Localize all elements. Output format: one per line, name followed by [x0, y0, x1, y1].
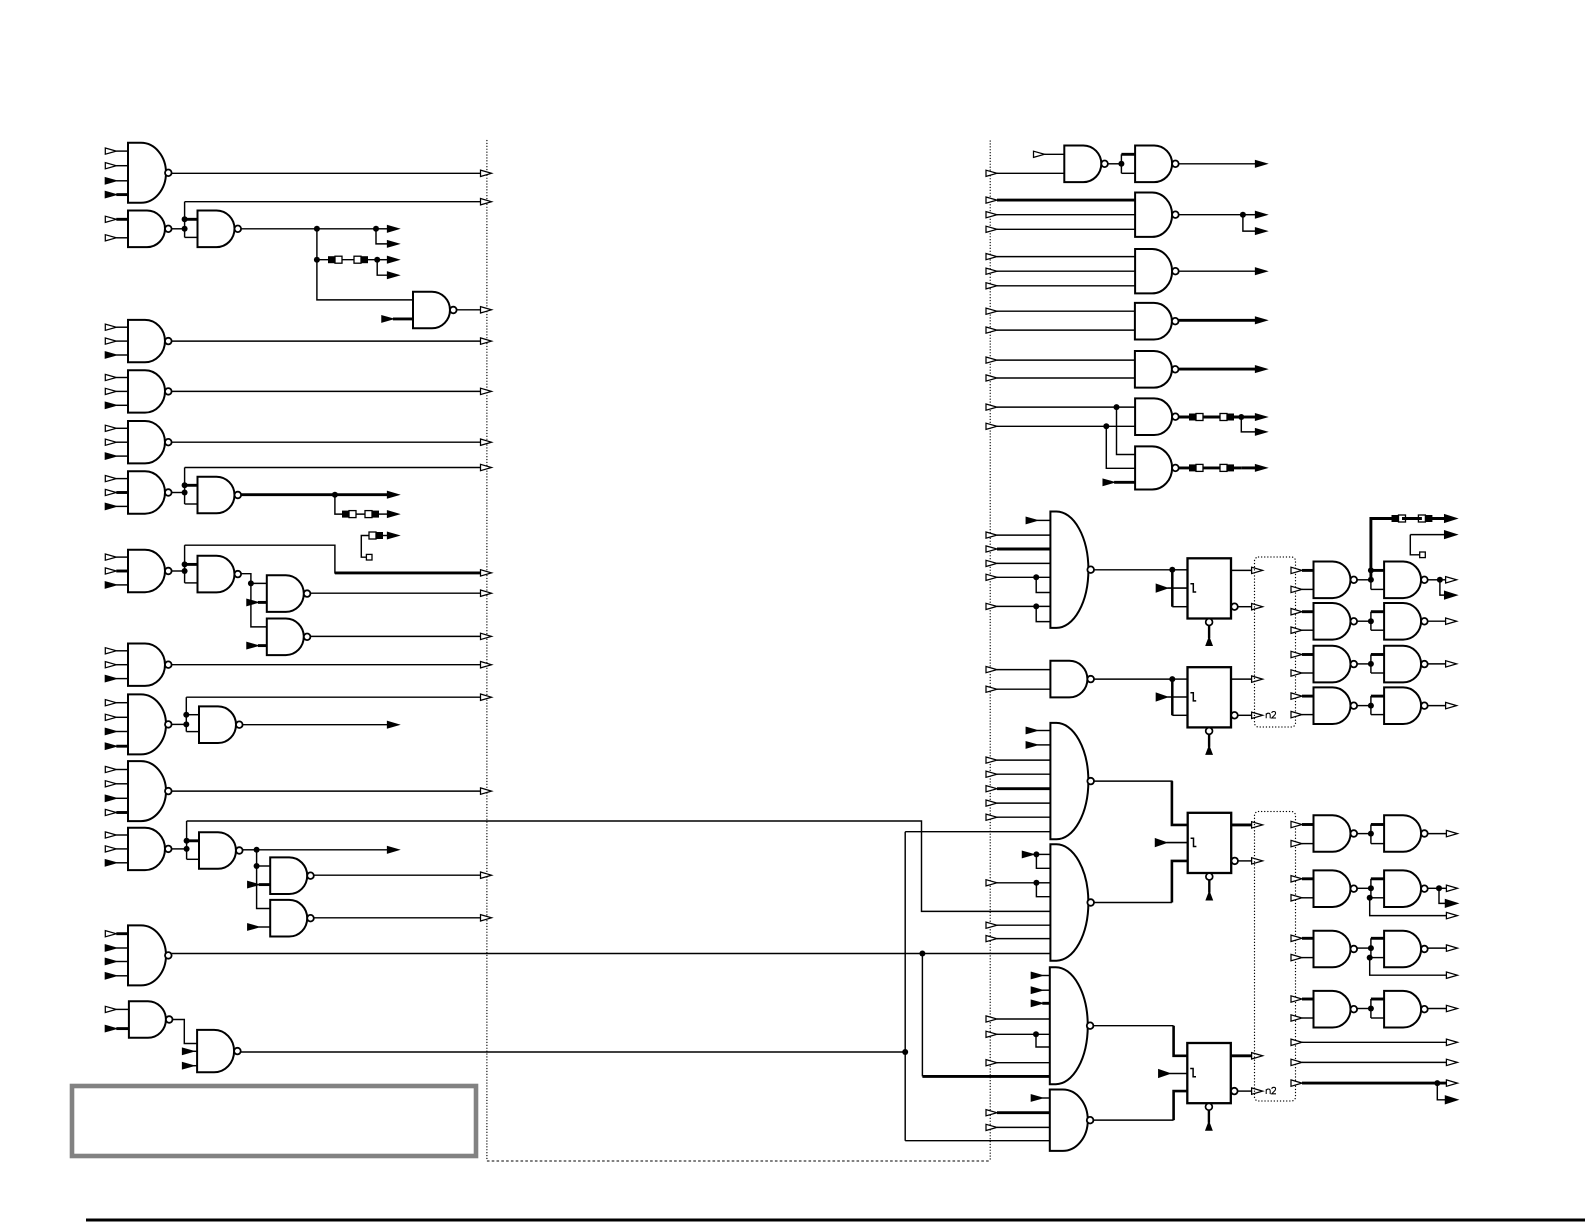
wire G2 out to node — [171, 228, 184, 230]
flip-flop FF1 — [1188, 558, 1232, 645]
wire G25A out — [1108, 163, 1121, 165]
NAND gate G44B — [1384, 931, 1428, 968]
wire r6b down to G31.B — [1106, 426, 1135, 468]
wire g32a stub — [1036, 577, 1050, 592]
junction G35a — [1368, 618, 1374, 624]
input port arrow G38.B — [1026, 742, 1050, 748]
input port arrow G1.C — [105, 178, 128, 184]
junction node n2a lower — [182, 226, 188, 232]
input port arrow G1.A — [105, 148, 128, 154]
wire G36 loop stub b — [1371, 672, 1384, 674]
output port arrow rnet2b — [1256, 228, 1267, 234]
junction G45a — [1368, 1006, 1374, 1012]
wire G44 loop stub b — [1371, 957, 1384, 959]
NAND gate G15 — [128, 694, 172, 754]
input port arrow G38.F — [986, 800, 1050, 806]
input port arrow G27.C — [986, 283, 1135, 289]
input port arrow G35.B — [1291, 627, 1302, 633]
bubble FF1.QB — [1231, 603, 1238, 610]
input port arrow G10.B — [105, 568, 128, 574]
input port arrow G40.G — [986, 1060, 1050, 1066]
wire G16 out — [243, 724, 388, 726]
wire FF2 QB — [1238, 714, 1252, 716]
wire G45 loop stub b — [1371, 1017, 1384, 1019]
NAND gate G31 — [1135, 446, 1179, 489]
NAND gate G17 — [128, 761, 172, 821]
wire G25B out — [1179, 163, 1256, 165]
wire FF4 Q — [1231, 1054, 1252, 1057]
junction n22a — [919, 951, 925, 957]
wire G42 loop — [1370, 825, 1372, 844]
wire g39b to pin3 — [1036, 882, 1050, 884]
wire G43 link — [1358, 887, 1371, 889]
wire G44B out — [1428, 947, 1446, 949]
NAND gate G9 — [198, 477, 242, 514]
wire n3 tap1 lead — [376, 228, 388, 230]
input port arrow G22.B — [105, 945, 128, 951]
wire r2 branch — [1243, 215, 1256, 231]
junction g32b — [1033, 603, 1039, 609]
wire n11 to G12.A — [251, 582, 267, 584]
wire G36 loop — [1370, 655, 1372, 674]
wire G36 link — [1358, 663, 1371, 665]
wire n15 to G16.B — [186, 731, 199, 733]
input port arrow G4.B — [382, 316, 413, 322]
junction g39b — [1033, 880, 1039, 886]
junction r2 — [1240, 212, 1246, 218]
wire G43 loop — [1370, 879, 1372, 898]
net stub pads r6 right — [1220, 414, 1234, 421]
input port arrow G22.A — [105, 931, 128, 937]
wire G34 branch — [1440, 580, 1445, 595]
wire stub net s1 — [361, 536, 369, 558]
output port arrow FF4.QB — [1252, 1088, 1263, 1094]
wire G37B out — [1428, 705, 1446, 707]
junction n3b — [373, 226, 379, 232]
input port arrow G22.D — [105, 973, 128, 979]
wire G36.B lead — [1302, 672, 1314, 674]
output port arrow bnet2a — [1446, 885, 1457, 891]
input port arrow G39.G — [986, 936, 1050, 942]
NAND gate G3 — [198, 211, 242, 248]
input port arrow G37.A — [1291, 693, 1302, 699]
wire rowA stub2 drop — [1410, 535, 1419, 555]
wire n15 feedback to boundary — [186, 696, 480, 698]
wire b2 pin drop — [1370, 898, 1447, 916]
net stub pads s1 — [369, 532, 383, 539]
wire ff1 D stub — [1172, 569, 1187, 571]
output port arrow FF4.Q — [1252, 1053, 1263, 1059]
input port arrow G38.A — [1026, 727, 1050, 733]
input port arrow G10.C — [105, 582, 128, 588]
input port arrow G6.B — [105, 388, 128, 394]
input port arrow G25A.B — [986, 170, 1064, 176]
wire G43.A lead — [1302, 877, 1314, 880]
wire G41 out thick — [1174, 1091, 1188, 1120]
input port arrow G45.B — [1291, 1015, 1302, 1021]
wire ff2 D stub — [1172, 678, 1187, 680]
output port arrow n3 tap1 — [388, 226, 399, 232]
NAND gate G42A — [1314, 815, 1358, 852]
wire G45.A lead — [1302, 998, 1314, 1001]
NAND gate G45B — [1384, 991, 1428, 1028]
NAND gate G35B — [1384, 603, 1428, 640]
wire G9 out — [241, 493, 335, 496]
input port arrow G39.A — [1022, 851, 1036, 857]
NAND gate G14 — [128, 644, 172, 686]
input port arrow G5.C — [105, 352, 128, 358]
input port arrow G24.B — [183, 1048, 198, 1054]
input port arrow w3 — [1291, 1080, 1302, 1086]
wire r1 stub a — [1121, 153, 1135, 156]
junction b2 — [1436, 885, 1442, 891]
NAND gate G34B — [1384, 562, 1428, 599]
junction b3b — [1367, 955, 1373, 961]
input port arrow G38.G — [986, 814, 1050, 820]
wire G37 link — [1358, 705, 1371, 707]
input port arrow G25A.A — [1034, 151, 1065, 157]
wire r1 stub b — [1121, 172, 1135, 174]
junction w3 — [1434, 1080, 1440, 1086]
input port arrow G15.C — [105, 728, 128, 734]
junction G36a — [1368, 661, 1374, 667]
input port arrow G12.B — [247, 599, 267, 605]
junction n19b — [254, 863, 260, 869]
wire G43 loop stub a — [1371, 877, 1384, 880]
junction ff1 D — [1169, 567, 1175, 573]
wire n15 to G16.A — [186, 714, 199, 716]
junction G34a — [1368, 577, 1374, 583]
wire n3 pad row — [317, 259, 377, 261]
input port arrow G6.A — [105, 374, 128, 380]
wire r2 tap lead — [1243, 214, 1256, 216]
junction G34c — [1437, 577, 1443, 583]
input port arrow G15.B — [105, 714, 128, 720]
output port arrow FF2.QB — [1252, 712, 1263, 718]
NAND gate G1 — [128, 143, 172, 203]
input port arrow G36.B — [1291, 670, 1302, 676]
NAND gate G36A — [1314, 646, 1358, 683]
junction n10b — [182, 568, 188, 574]
wire G43.B lead — [1302, 897, 1314, 899]
dashed boundary bottom — [487, 1160, 990, 1162]
output port arrow net2 — [481, 199, 492, 205]
output port arrow rnet4 — [1256, 317, 1267, 323]
NAND gate G44A — [1314, 931, 1358, 968]
input port arrow G31.C — [1103, 479, 1135, 485]
input port arrow G5.B — [105, 338, 128, 344]
wire G34 top riser — [1371, 519, 1392, 580]
input port arrow G41.C — [986, 1124, 1050, 1130]
wire w3 branch — [1437, 1083, 1445, 1100]
net stub square s1 — [366, 554, 372, 560]
input port arrow G27.B — [986, 268, 1135, 274]
junction n19a — [254, 847, 260, 853]
wire g39a to pin1 — [1036, 853, 1050, 855]
wire G37.A lead — [1302, 695, 1314, 698]
wire G34 link — [1358, 579, 1371, 581]
wire G26 out — [1179, 214, 1243, 216]
NAND gate G43A — [1314, 870, 1358, 907]
input port arrow G43.B — [1291, 895, 1302, 901]
input port arrow G32.D — [986, 560, 1050, 566]
input port arrow G32.G — [986, 603, 1050, 609]
flip-flop FF4 — [1187, 1043, 1231, 1130]
wire n19 tap lead — [257, 849, 388, 851]
input port arrow G43.A — [1291, 876, 1302, 882]
NAND gate G27 — [1135, 249, 1179, 293]
input port arrow G14.B — [105, 662, 128, 668]
wire ff1 aux tie — [1171, 570, 1174, 607]
wire n3 branch down1 — [376, 229, 388, 244]
net stub pads n3 left — [328, 256, 342, 263]
wire G34 out lead — [1440, 579, 1446, 581]
input port arrow G7.C — [105, 453, 128, 459]
wire g39b stub — [1036, 883, 1050, 897]
wire w1 — [1302, 1041, 1446, 1043]
wire n3 tap3 lead — [377, 259, 387, 261]
wire G40 out thick — [1174, 1026, 1188, 1056]
input port arrow G13.B — [247, 643, 267, 649]
input port arrow G40.C — [1031, 1000, 1050, 1006]
wire G38 out — [1094, 781, 1172, 825]
input port arrow G21.B — [248, 924, 271, 930]
input port arrow G33.B — [986, 686, 1050, 692]
wire n8 to G9.B — [185, 503, 198, 505]
wire n19 to G20.A — [257, 865, 271, 867]
wire G42B out — [1428, 833, 1446, 835]
output port arrow bnet2b — [1445, 900, 1457, 908]
wire n3 vertical — [316, 229, 318, 260]
output port arrow n9 tap2 — [388, 511, 399, 517]
wire G8 out — [171, 492, 184, 494]
input port arrow G32.C — [986, 546, 1050, 552]
NAND gate G22 — [128, 925, 172, 985]
wire G34 loop stub b — [1371, 588, 1384, 590]
wire G21 out — [314, 917, 481, 919]
wire G42.B lead — [1302, 843, 1314, 845]
output port arrow pnetG36 — [1446, 661, 1457, 667]
wire G44.A lead — [1302, 937, 1314, 940]
NAND gate G5 — [128, 320, 172, 362]
wire G44 loop stub a — [1371, 937, 1384, 940]
input port arrow G6.C — [105, 402, 128, 408]
input port arrow G27.A — [986, 254, 1135, 260]
NAND gate G28 — [1135, 303, 1179, 340]
input port arrow G36.A — [1291, 651, 1302, 657]
NAND gate G20 — [270, 857, 314, 894]
flip-flop FF2 — [1188, 667, 1232, 754]
wire G37 loop stub a — [1371, 695, 1384, 698]
output port arrow bnet4 — [1446, 1005, 1457, 1011]
NAND gate G12 — [267, 575, 311, 612]
junction g39a — [1033, 851, 1039, 857]
clock input arrow FF3.CK — [1155, 839, 1187, 847]
wire G37.B lead — [1302, 714, 1314, 716]
net stub pads rowA right — [1418, 515, 1432, 522]
NAND gate G37B — [1384, 687, 1428, 724]
input port arrow G8.A — [105, 476, 128, 482]
input port arrow G1.B — [105, 163, 128, 169]
input port arrow G23.B — [105, 1026, 129, 1032]
junction G42a — [1368, 831, 1374, 837]
wire G27 out — [1179, 270, 1256, 272]
output port arrow net4 — [481, 307, 492, 313]
output port arrow w2 — [1446, 1059, 1457, 1065]
wire G43B out — [1428, 887, 1439, 889]
wire G44 link — [1358, 947, 1371, 949]
wire G30 out — [1179, 416, 1242, 419]
input port arrow G17.D — [105, 809, 128, 815]
wire G32 out — [1094, 569, 1172, 571]
input port arrow G1.D — [105, 192, 128, 198]
dotted net box middle — [1255, 557, 1296, 727]
wire ff2 aux stub — [1172, 714, 1187, 716]
wire w2 — [1302, 1061, 1446, 1063]
input port arrow G35.A — [1291, 609, 1302, 615]
input port arrow G37.B — [1291, 711, 1302, 717]
wire r6a down to G31.A — [1117, 407, 1136, 454]
wire G36.A lead — [1302, 653, 1314, 656]
input port arrow G28.B — [986, 327, 1135, 333]
input port arrow G42.B — [1291, 840, 1302, 846]
output port arrow net7 — [481, 439, 492, 445]
wire G11 out — [241, 574, 267, 627]
wire n3 to G4 — [317, 260, 413, 300]
wire G35 loop — [1370, 612, 1372, 631]
wire G34.A lead — [1302, 569, 1314, 572]
wire n18 to G19.A — [187, 839, 199, 842]
NAND gate G42B — [1384, 815, 1428, 852]
dotted feed-through boundary left — [486, 141, 488, 1162]
NAND gate G4 — [413, 292, 457, 329]
wire G34 loop stub a — [1371, 569, 1384, 572]
NAND gate G36B — [1384, 646, 1428, 683]
wire G45 loop stub a — [1371, 998, 1384, 1001]
NAND gate G25B — [1135, 146, 1179, 183]
input port arrow w2 — [1291, 1059, 1302, 1065]
input port arrow G28.A — [986, 308, 1135, 314]
wire node to G3.B — [185, 236, 198, 238]
output port arrow rnet3 — [1256, 268, 1267, 274]
junction node n2a upper — [182, 216, 188, 222]
input port arrow G14.A — [105, 648, 128, 654]
wire node to G3.A — [185, 218, 198, 221]
net stub pads r6 left — [1189, 414, 1203, 421]
wire n10 feedback thick part — [335, 571, 481, 574]
net stub pads r7 right — [1220, 464, 1234, 471]
wire G42.A lead — [1302, 823, 1314, 826]
wire s1 arrow lead — [380, 535, 388, 537]
output port arrow w3b — [1445, 1096, 1457, 1104]
output port arrow pnetA2 — [1445, 591, 1457, 599]
input port arrow G39.F — [986, 922, 1050, 928]
wire G35.B lead — [1302, 629, 1314, 631]
output port arrow pnetA — [1446, 577, 1457, 583]
junction n8a — [182, 482, 188, 488]
junction n3c — [314, 257, 320, 263]
wire G35B out — [1428, 620, 1446, 622]
wire G42 loop stub b — [1371, 843, 1384, 845]
output port arrow bnet1 — [1446, 830, 1457, 836]
wire G37 loop — [1370, 696, 1372, 715]
junction n24a — [902, 1049, 908, 1055]
input port arrow G15.A — [105, 700, 128, 706]
wire G44 loop — [1370, 938, 1372, 957]
input port arrow G30.B — [986, 423, 1135, 429]
wire n18 to G19.B — [187, 858, 199, 860]
NAND gate G21 — [270, 900, 314, 937]
bubble FF3.QB — [1231, 858, 1238, 865]
wire n9 branch — [335, 495, 377, 514]
wire G35 link — [1358, 620, 1371, 622]
output port arrow n9 tap1 — [388, 492, 399, 498]
input port arrow G26.C — [986, 226, 1135, 232]
NAND gate G37A — [1314, 687, 1358, 724]
wire G36 loop stub a — [1371, 653, 1384, 656]
NAND gate G29 — [1135, 351, 1179, 388]
input port arrow G44.B — [1291, 954, 1302, 960]
wire G22 long net — [172, 953, 1051, 955]
wire net A vertical — [904, 832, 906, 1141]
input port arrow G18.B — [105, 846, 128, 852]
wire ff2 aux tie — [1171, 679, 1174, 715]
input port arrow G15.D — [105, 743, 128, 749]
wire b2 branch — [1439, 888, 1445, 903]
wire G31 out — [1179, 466, 1242, 469]
wire G20 out — [314, 874, 481, 876]
NAND gate G11 — [198, 556, 242, 593]
wire n10 feedback jog — [185, 545, 481, 573]
NAND gate G41 — [1050, 1090, 1094, 1151]
wire n10 to G11.A — [185, 563, 198, 566]
wire G34B out — [1428, 579, 1440, 581]
NAND gate G35A — [1314, 603, 1358, 640]
input port arrow G26.B — [986, 212, 1135, 218]
output port arrow rnet5 — [1256, 366, 1267, 372]
input port arrow G22.C — [105, 958, 128, 964]
output port arrow net1 — [481, 170, 492, 176]
wire G14 out — [172, 664, 481, 666]
wire node n8 vertical — [184, 468, 186, 505]
NAND gate G34A — [1314, 562, 1358, 599]
net stub pads n9 right — [365, 511, 379, 518]
NAND gate G16 — [199, 706, 243, 743]
output port arrow net6 — [481, 388, 492, 394]
wire G45 link — [1358, 1008, 1371, 1010]
bubble FF2.QB — [1231, 712, 1238, 719]
wire b3 pin drop — [1370, 958, 1447, 976]
input port arrow G34.B — [1291, 586, 1302, 592]
wire FF1 QB — [1238, 606, 1252, 608]
junction n18a — [184, 838, 190, 844]
junction r6a — [1114, 404, 1120, 410]
input port arrow G7.B — [105, 439, 128, 445]
NAND gate G25A — [1064, 146, 1108, 183]
wire n22 branch down — [921, 954, 923, 1077]
wire G45.B lead — [1302, 1017, 1314, 1019]
output port arrow bnet2c — [1446, 912, 1457, 918]
wire G12 out — [310, 592, 480, 594]
output port arrow net14 — [481, 662, 492, 668]
wire G7 out — [172, 441, 481, 443]
output port arrow net17 — [481, 788, 492, 794]
output port arrow net5 — [481, 338, 492, 344]
output port arrow s1 — [388, 532, 399, 538]
input port arrow G17.C — [105, 795, 128, 801]
wire w3 — [1302, 1082, 1446, 1085]
output port arrow FF1.QB — [1252, 604, 1263, 610]
